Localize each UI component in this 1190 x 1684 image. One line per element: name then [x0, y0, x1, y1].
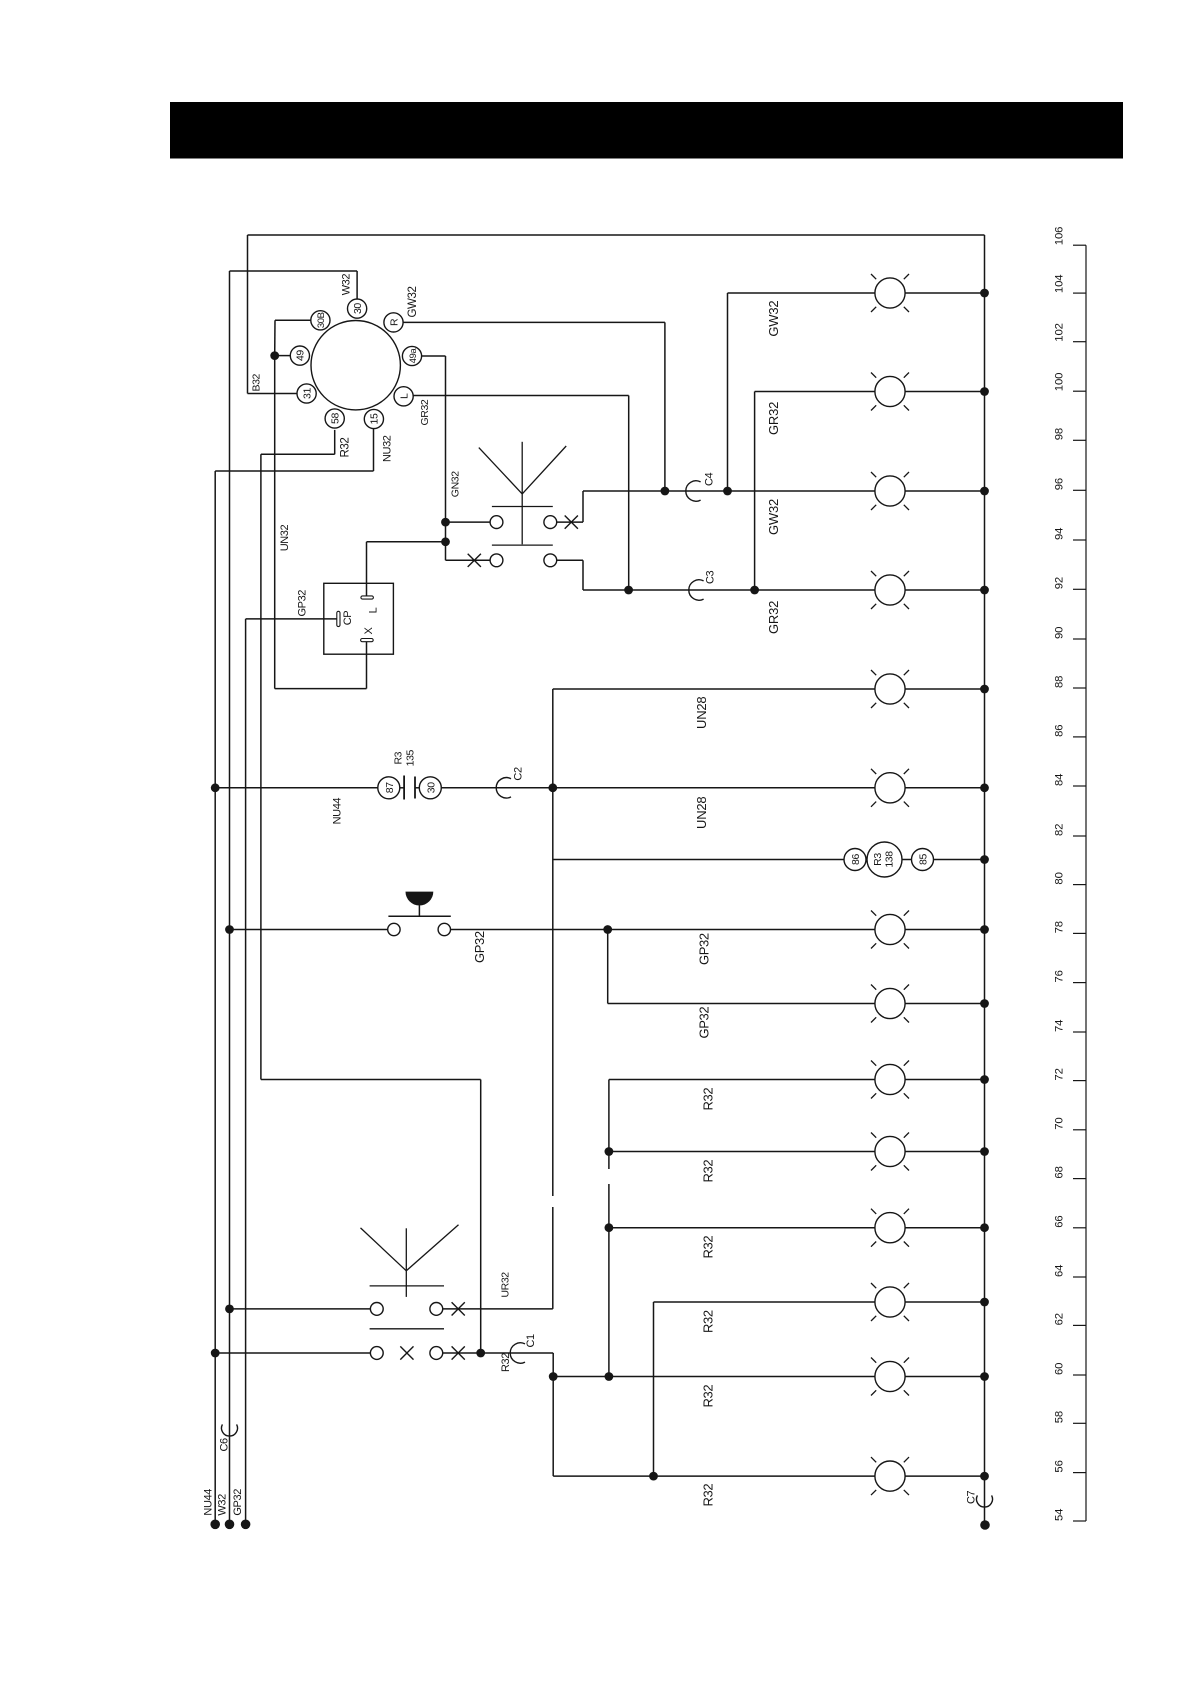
svg-text:60: 60	[1054, 1363, 1066, 1375]
junction bus 1151.5	[980, 1147, 989, 1156]
junction GP32 branch	[603, 925, 612, 934]
wire GR32 lamp100 vertical	[754, 392, 756, 591]
connector C4	[686, 481, 701, 501]
junction GN32/L	[441, 537, 450, 546]
svg-text:98: 98	[1054, 428, 1066, 440]
wire 30B corner	[274, 320, 276, 355]
svg-text:96: 96	[1054, 478, 1066, 490]
wire NU32 horizontal	[215, 470, 373, 472]
wire L terminal	[366, 542, 368, 596]
wire lamp 78 to bus	[905, 929, 984, 931]
svg-text:L: L	[398, 393, 410, 399]
wire GW32 from pin R	[403, 321, 665, 323]
junction bus 1476.1	[980, 1472, 989, 1481]
wire GN32 row2 right	[557, 559, 583, 561]
relay R3 135 terminal 87	[378, 777, 400, 799]
svg-text:GP32: GP32	[232, 1489, 244, 1516]
wire R3 138 coil row	[553, 859, 985, 861]
junction bus 1079.5	[980, 1075, 989, 1084]
svg-text:104: 104	[1054, 275, 1066, 294]
contact X UR32 row2	[452, 1346, 465, 1359]
wire GW32 lamp104 vertical	[727, 293, 729, 491]
junction bus 491	[980, 487, 989, 496]
contact X UR32 row2 mid	[400, 1346, 413, 1359]
svg-text:R32: R32	[701, 1385, 716, 1408]
junction lamp60 b	[605, 1372, 614, 1381]
svg-text:UN28: UN28	[694, 797, 709, 829]
contact X GN32 row2	[468, 554, 481, 567]
wire B32 to pin 31	[248, 393, 298, 395]
pin R	[384, 313, 403, 332]
svg-text:72: 72	[1054, 1068, 1066, 1080]
wire GN32 to L terminal	[367, 541, 446, 543]
wire lamp 100 to bus	[905, 391, 984, 393]
wire GP32 pushbutton to lamp 78	[450, 929, 875, 931]
relay R3 138 terminal 85	[912, 849, 934, 871]
wire main bus right vertical	[984, 235, 986, 1525]
wire NU44 long vertical	[214, 471, 216, 1524]
junction bus 391.5	[980, 387, 989, 396]
svg-text:GP32: GP32	[697, 1007, 712, 1039]
junction NU44/UR32	[211, 1349, 220, 1358]
junction NU44/relay	[211, 783, 220, 792]
svg-text:R32: R32	[701, 1310, 716, 1333]
wire UN32 vertical	[274, 356, 276, 689]
svg-text:GR32: GR32	[766, 601, 781, 634]
junction C2/UN28	[548, 783, 557, 792]
lamp 88	[871, 670, 909, 708]
wire to lamp 66	[609, 1227, 875, 1229]
terminal GP32	[241, 1520, 251, 1530]
svg-text:GR32: GR32	[766, 402, 781, 435]
junction bus 1302	[980, 1298, 989, 1307]
svg-text:GP32: GP32	[472, 931, 487, 963]
svg-text:56: 56	[1054, 1460, 1066, 1472]
svg-text:86: 86	[850, 854, 862, 865]
svg-text:GP32: GP32	[297, 590, 309, 617]
svg-text:58: 58	[330, 413, 342, 424]
lamp 104	[871, 274, 909, 312]
scan gap artifacts	[608, 1169, 610, 1184]
svg-text:R3: R3	[393, 751, 405, 764]
wire UN28 to lamp 88	[553, 688, 875, 690]
svg-text:C2: C2	[513, 767, 525, 781]
wire R32 down to UR32 row2	[480, 1080, 482, 1354]
wire GP32 branch down	[607, 930, 609, 1004]
wire B32 vertical	[247, 235, 249, 394]
wire to lamp 56	[553, 1475, 875, 1477]
contact UR32 row1 left	[370, 1303, 383, 1316]
wire UN32 bottom horizontal	[275, 688, 367, 690]
wire main bus top	[248, 234, 985, 236]
terminal bar CP	[337, 611, 340, 626]
terminal NU44	[210, 1520, 220, 1530]
contact X UR32 row1	[452, 1302, 465, 1315]
connector C7	[976, 1495, 992, 1507]
wire NU44 to UR32 row2	[215, 1352, 370, 1354]
svg-text:135: 135	[405, 749, 417, 766]
svg-text:31: 31	[301, 388, 313, 399]
wire R32 horizontal to UR32	[261, 1079, 481, 1081]
svg-text:CP: CP	[342, 611, 354, 626]
wire lamp 75 to bus	[905, 1003, 984, 1005]
svg-text:76: 76	[1054, 970, 1066, 982]
terminal bus bottom	[980, 1520, 990, 1530]
junction bus 859.5	[980, 855, 989, 864]
svg-text:80: 80	[1054, 872, 1066, 884]
connector C1	[510, 1343, 525, 1363]
pin 49	[290, 346, 309, 365]
svg-text:C6: C6	[218, 1438, 230, 1452]
wire lamp 104 to bus	[905, 292, 984, 294]
lamp 96	[871, 472, 909, 510]
pin 58	[325, 409, 344, 428]
terminal bar X	[361, 639, 374, 642]
lamp 66	[871, 1209, 909, 1247]
svg-text:B32: B32	[251, 373, 263, 391]
svg-text:70: 70	[1054, 1117, 1066, 1129]
wire GP32 long vertical	[245, 619, 247, 1524]
wire to lamp 60	[553, 1376, 875, 1378]
svg-text:R3: R3	[872, 853, 884, 866]
lamp 69	[871, 1133, 909, 1171]
svg-text:GW32: GW32	[407, 287, 419, 318]
svg-text:UN32: UN32	[279, 524, 291, 551]
svg-text:W32: W32	[340, 274, 352, 296]
contact UR32 row1 right	[430, 1303, 443, 1316]
ruler scale line	[1085, 245, 1087, 1521]
wire NU32 from pin 15	[373, 429, 375, 471]
svg-text:GW32: GW32	[766, 301, 781, 337]
svg-text:R32: R32	[701, 1236, 716, 1259]
svg-text:49: 49	[295, 350, 307, 361]
wire GN32 row2 down	[582, 560, 584, 590]
wire to lamp 100	[755, 391, 875, 393]
wire to lamp 75	[608, 1003, 875, 1005]
wire UN32 up to X terminal	[366, 642, 368, 689]
pushbutton GP32 cap	[406, 892, 434, 906]
connector/switch body circle	[311, 321, 400, 410]
wire R32 horizontal	[261, 453, 335, 455]
wire UR32 row1 right	[443, 1308, 553, 1310]
svg-text:UN28: UN28	[694, 697, 709, 729]
svg-text:58: 58	[1054, 1411, 1066, 1423]
pin 15	[364, 409, 383, 428]
svg-text:88: 88	[1054, 676, 1066, 688]
contact UR32 row2 right	[430, 1347, 443, 1360]
wire to lamp 84	[441, 787, 875, 789]
svg-text:68: 68	[1054, 1166, 1066, 1178]
svg-text:NU44: NU44	[332, 798, 344, 825]
switch UR32 armature	[361, 1228, 407, 1271]
lamp 75	[871, 985, 909, 1023]
wire W32 from pin 30	[356, 271, 358, 299]
wire lamp63 feeder vertical	[653, 1302, 655, 1476]
wire GR32 vertical	[628, 396, 630, 591]
pin 30B	[311, 311, 330, 330]
lamp 100	[871, 373, 909, 411]
wire GN32 vertical	[445, 356, 447, 560]
wire GN32 row1 up	[582, 491, 584, 522]
svg-text:62: 62	[1054, 1313, 1066, 1325]
ruler tick marks 54-106	[1073, 245, 1086, 1521]
junction GR32/C3	[624, 586, 633, 595]
svg-text:64: 64	[1054, 1265, 1066, 1277]
wire lamp 92 to bus	[905, 589, 984, 591]
wire W32 long vertical	[229, 271, 231, 1524]
svg-text:90: 90	[1054, 627, 1066, 639]
pin 49a	[402, 346, 421, 365]
wire GN32 row1 left	[446, 521, 491, 523]
svg-text:106: 106	[1054, 227, 1066, 246]
lamp 60	[871, 1358, 909, 1396]
svg-text:30: 30	[425, 782, 437, 793]
svg-text:R32: R32	[701, 1088, 716, 1111]
svg-text:X: X	[363, 626, 375, 634]
wire to lamp 69	[609, 1151, 875, 1153]
junction 49/30B	[270, 351, 279, 360]
svg-text:30: 30	[352, 303, 364, 314]
terminal W32	[225, 1520, 235, 1530]
svg-text:86: 86	[1054, 725, 1066, 737]
junction GW32/C4	[661, 487, 670, 496]
svg-text:UR32: UR32	[500, 1272, 512, 1298]
svg-text:NU32: NU32	[382, 435, 394, 462]
svg-text:C4: C4	[704, 472, 716, 486]
header bar	[170, 102, 1123, 159]
lamp 92	[871, 571, 909, 609]
svg-text:84: 84	[1054, 774, 1066, 786]
pin 30	[348, 299, 367, 318]
svg-text:30B: 30B	[316, 312, 327, 328]
wire lamp 84 to bus	[905, 787, 984, 789]
connector C2	[496, 778, 511, 798]
wire GR32 row to lamp 92	[583, 589, 875, 591]
relay R3 138	[867, 842, 902, 877]
junction W32/UR32	[225, 1305, 234, 1314]
svg-text:15: 15	[369, 413, 381, 424]
junction lamp56	[649, 1472, 658, 1481]
wire NU44 to relay R3 135	[215, 787, 378, 789]
wire W32 horizontal top	[230, 270, 358, 272]
junction bus 929.5	[980, 925, 989, 934]
svg-text:GP32: GP32	[697, 933, 712, 965]
wire R32 lamp bus vertical	[608, 1080, 610, 1377]
wire to lamp 72	[609, 1079, 875, 1081]
svg-text:87: 87	[384, 782, 396, 793]
svg-text:82: 82	[1054, 824, 1066, 836]
svg-text:GR32: GR32	[419, 399, 431, 425]
wire lamp 60 to bus	[905, 1376, 984, 1378]
contact X GN32 row1	[565, 516, 578, 529]
svg-text:C1: C1	[525, 1334, 537, 1348]
wire lamp 72 to bus	[905, 1079, 984, 1081]
svg-text:100: 100	[1054, 373, 1066, 392]
wire from pin 49	[275, 355, 291, 357]
junction lamp104 feed	[723, 487, 732, 496]
junction lamp69	[605, 1147, 614, 1156]
wire R32 from C1 down	[552, 1353, 554, 1476]
svg-text:C7: C7	[966, 1490, 978, 1504]
svg-text:W32: W32	[216, 1494, 228, 1516]
contact GN32 row1 right	[544, 516, 557, 529]
junction bus 787.8	[980, 783, 989, 792]
wire lamp 96 to bus	[905, 490, 984, 492]
svg-text:74: 74	[1054, 1020, 1066, 1032]
svg-text:102: 102	[1054, 323, 1066, 342]
svg-text:78: 78	[1054, 921, 1066, 933]
wire R32 long vertical	[260, 454, 262, 1079]
wire GR32 from pin L	[413, 395, 629, 397]
wire 87 to contact	[400, 787, 404, 789]
svg-text:49a: 49a	[408, 348, 419, 364]
lamp 56	[871, 1457, 909, 1495]
svg-text:92: 92	[1054, 577, 1066, 589]
wire GN32 row2 left	[446, 559, 491, 561]
junction GN32 row1	[441, 518, 450, 527]
svg-text:L: L	[367, 607, 379, 613]
wire lamp 63 to bus	[905, 1301, 984, 1303]
relay box GP32	[324, 583, 394, 654]
junction bus 293	[980, 289, 989, 298]
pushbutton stem	[418, 906, 420, 917]
wire W32 to pushbutton	[230, 929, 388, 931]
relay R3 135 contact bars	[403, 776, 405, 800]
wire lamp 56 to bus	[905, 1475, 984, 1477]
contact GN32 row1 left	[490, 516, 503, 529]
pin L	[394, 387, 413, 406]
junction bus 590	[980, 586, 989, 595]
junction R32/C1	[476, 1349, 485, 1358]
wire lamp 88 to bus	[905, 688, 984, 690]
wire R32 from pin 58	[334, 430, 336, 454]
wire to lamp 63	[654, 1301, 875, 1303]
wire GN32 row1 right	[557, 521, 583, 523]
svg-text:66: 66	[1054, 1215, 1066, 1227]
contact UR32 row2 left	[370, 1347, 383, 1360]
contact GN32 row2 left	[490, 554, 503, 567]
wire lamp 69 to bus	[905, 1151, 984, 1153]
wire GW32 vertical	[664, 322, 666, 491]
lamp 63	[871, 1283, 909, 1321]
svg-text:94: 94	[1054, 528, 1066, 540]
lamp 78	[871, 911, 909, 949]
svg-text:138: 138	[884, 851, 896, 868]
svg-text:R32: R32	[500, 1353, 512, 1372]
junction lamp66	[605, 1223, 614, 1232]
svg-text:R32: R32	[340, 438, 352, 458]
junction bus 689	[980, 685, 989, 694]
svg-text:85: 85	[918, 854, 930, 865]
relay R3 138 terminal 86	[844, 849, 866, 871]
junction bus 1376.5	[980, 1372, 989, 1381]
wire GN32 from pin 49a	[422, 355, 446, 357]
svg-text:54: 54	[1054, 1509, 1066, 1521]
wire GP32 to CP terminal	[246, 618, 337, 620]
wire lamp 66 to bus	[905, 1227, 984, 1229]
wire UR32 row2 right / C1	[443, 1352, 554, 1354]
junction bus 1003.5	[980, 999, 989, 1008]
wire from pin 30B	[275, 319, 311, 321]
lamp 84	[871, 769, 909, 807]
wire contact to 30	[415, 787, 419, 789]
connector C3	[689, 580, 704, 600]
junction lamp60 a	[549, 1372, 558, 1381]
svg-text:C3: C3	[705, 570, 717, 584]
relay R3 135 terminal 30	[419, 777, 441, 799]
contact pushbutton left	[388, 923, 400, 935]
junction W32/pushbutton	[225, 925, 234, 934]
svg-text:NU44: NU44	[203, 1489, 215, 1516]
pushbutton bar	[388, 915, 450, 917]
switch GN32 hazard switch armature	[479, 448, 522, 494]
lamp 72	[871, 1061, 909, 1099]
svg-text:R: R	[388, 318, 400, 326]
svg-text:R32: R32	[701, 1484, 716, 1507]
contact pushbutton right	[438, 923, 450, 935]
junction bus 1227.7	[980, 1223, 989, 1232]
wire GW32 row to lamp 96	[583, 490, 875, 492]
wire to lamp 104	[728, 292, 875, 294]
connector C6	[222, 1424, 238, 1436]
wire W32 to UR32 row1	[230, 1308, 371, 1310]
pin 31	[297, 384, 316, 403]
svg-text:R32: R32	[701, 1160, 716, 1183]
contact GN32 row2 right	[544, 554, 557, 567]
wire UN28/flasher vertical	[552, 689, 554, 1309]
svg-text:GN32: GN32	[450, 471, 462, 497]
terminal bar L	[361, 596, 374, 599]
svg-text:GW32: GW32	[766, 499, 781, 535]
junction lamp100 feed	[750, 586, 759, 595]
